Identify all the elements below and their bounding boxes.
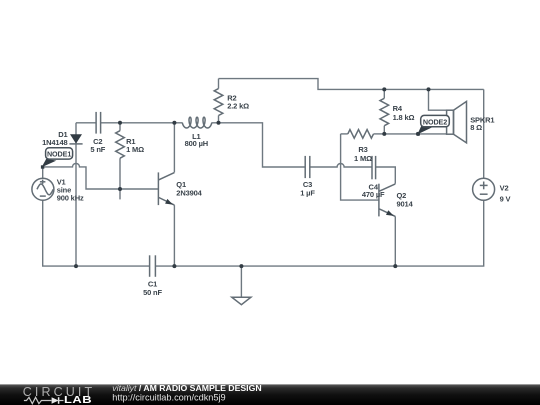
junction: Q1 collector / top wire node [172, 121, 176, 125]
svg-text:1 µF: 1 µF [300, 189, 315, 198]
svg-text:800 µH: 800 µH [185, 139, 208, 148]
diode D1 [70, 134, 82, 143]
wire: L1 right to corner down to C3 [212, 123, 305, 167]
wire: Q2 emitter to bottom rail [394, 216, 396, 266]
resistor R2 [218, 79, 220, 89]
resistor R3 [348, 130, 374, 139]
transistor Q2 [378, 184, 380, 217]
wire: C3 to C4 with hop over riser at x=340.6 [310, 164, 372, 168]
resistor R4 [380, 98, 389, 125]
junction: L1 right / R2 bottom node [217, 121, 221, 125]
svg-text:NODE2: NODE2 [423, 118, 447, 127]
wire: V1 top to jog with hop over D1 line [43, 163, 159, 189]
wire: R3 leads [341, 133, 348, 135]
transistor Q1 [157, 172, 159, 205]
wire: top horizontal left segment to C2 [76, 122, 96, 124]
wire: R4 bottom lead [383, 126, 385, 134]
svg-text:R4: R4 [393, 104, 403, 113]
svg-text:900 kHz: 900 kHz [57, 194, 84, 203]
source V2 [473, 178, 495, 200]
wire: R3 left riser down and to Q2 base [341, 134, 379, 200]
svg-text:9014: 9014 [397, 199, 414, 208]
wire: V1 top stem [42, 167, 44, 178]
wire: C4 right to Q2 collector pin [376, 167, 396, 184]
wire: node2 wire to speaker bottom pin [384, 133, 446, 135]
ground [240, 266, 242, 297]
wire: C2 right plate to L1 [101, 122, 183, 124]
junction: Q1 emitter on bottom rail [172, 264, 176, 268]
capacitor C2 plates [95, 112, 97, 134]
wire: R1 bottom lead crossing base wire [119, 158, 121, 199]
wire: D1 vertical line from top wire to bottom rail [75, 123, 77, 266]
svg-text:2.2 kΩ: 2.2 kΩ [227, 102, 249, 111]
junction: ground on bottom rail [239, 264, 243, 268]
svg-text:1N4148: 1N4148 [42, 138, 67, 147]
svg-text:NODE1: NODE1 [47, 149, 71, 158]
svg-text:9 V: 9 V [500, 195, 511, 204]
wire: bottom rail left of C1 [43, 200, 150, 266]
speaker SPKR1 [447, 110, 454, 134]
node NODE1 flag [42, 159, 57, 167]
svg-text:http://circuitlab.com/cdkn5j9: http://circuitlab.com/cdkn5j9 [112, 392, 225, 402]
resistor R1 [116, 131, 125, 159]
junction: Q2 emitter on bottom rail [393, 264, 397, 268]
junction: D1 branch on bottom rail [74, 264, 78, 268]
svg-text:LAB: LAB [64, 396, 92, 405]
junction: R4 bottom / R3 right node [382, 132, 386, 136]
svg-text:50 nF: 50 nF [143, 288, 162, 297]
svg-text:5 nF: 5 nF [90, 145, 105, 154]
svg-text:2N3904: 2N3904 [176, 189, 202, 198]
wire: Q1 emitter wire to bottom rail [173, 205, 175, 266]
source V1 [32, 178, 54, 200]
svg-text:1.8 kΩ: 1.8 kΩ [393, 113, 415, 122]
capacitor C3 plates [304, 156, 306, 178]
wire: V2 bottom to bottom rail [155, 200, 483, 266]
wire: Q1 collector wire [173, 123, 175, 173]
junction: NODE2 attach point [416, 132, 420, 136]
junction: R4 top on supply rail [382, 87, 386, 91]
junction: speaker branch on supply rail [427, 87, 431, 91]
node NODE2 flag [417, 125, 433, 134]
svg-text:V2: V2 [500, 184, 509, 193]
junction: R1 bottom on Q1 base wire [118, 187, 122, 191]
junction: R1 top / C2-L1 node [118, 121, 122, 125]
wire: R2 top to step corner to right rail top [219, 79, 484, 90]
capacitor C1 plates [149, 255, 151, 276]
svg-text:1 MΩ: 1 MΩ [126, 145, 144, 154]
svg-text:470 µF: 470 µF [362, 190, 385, 199]
wire: speaker top branch [429, 89, 447, 110]
inductor L1 [182, 117, 212, 128]
svg-text:1 MΩ: 1 MΩ [354, 154, 372, 163]
wire: R4 top lead [383, 89, 385, 98]
wire: R1 top lead [119, 123, 121, 131]
wire: right rail down to V2 top [483, 89, 485, 178]
svg-text:8 Ω: 8 Ω [470, 123, 482, 132]
capacitor C4 plates [371, 156, 373, 179]
logo zigzag + diode [24, 397, 51, 403]
